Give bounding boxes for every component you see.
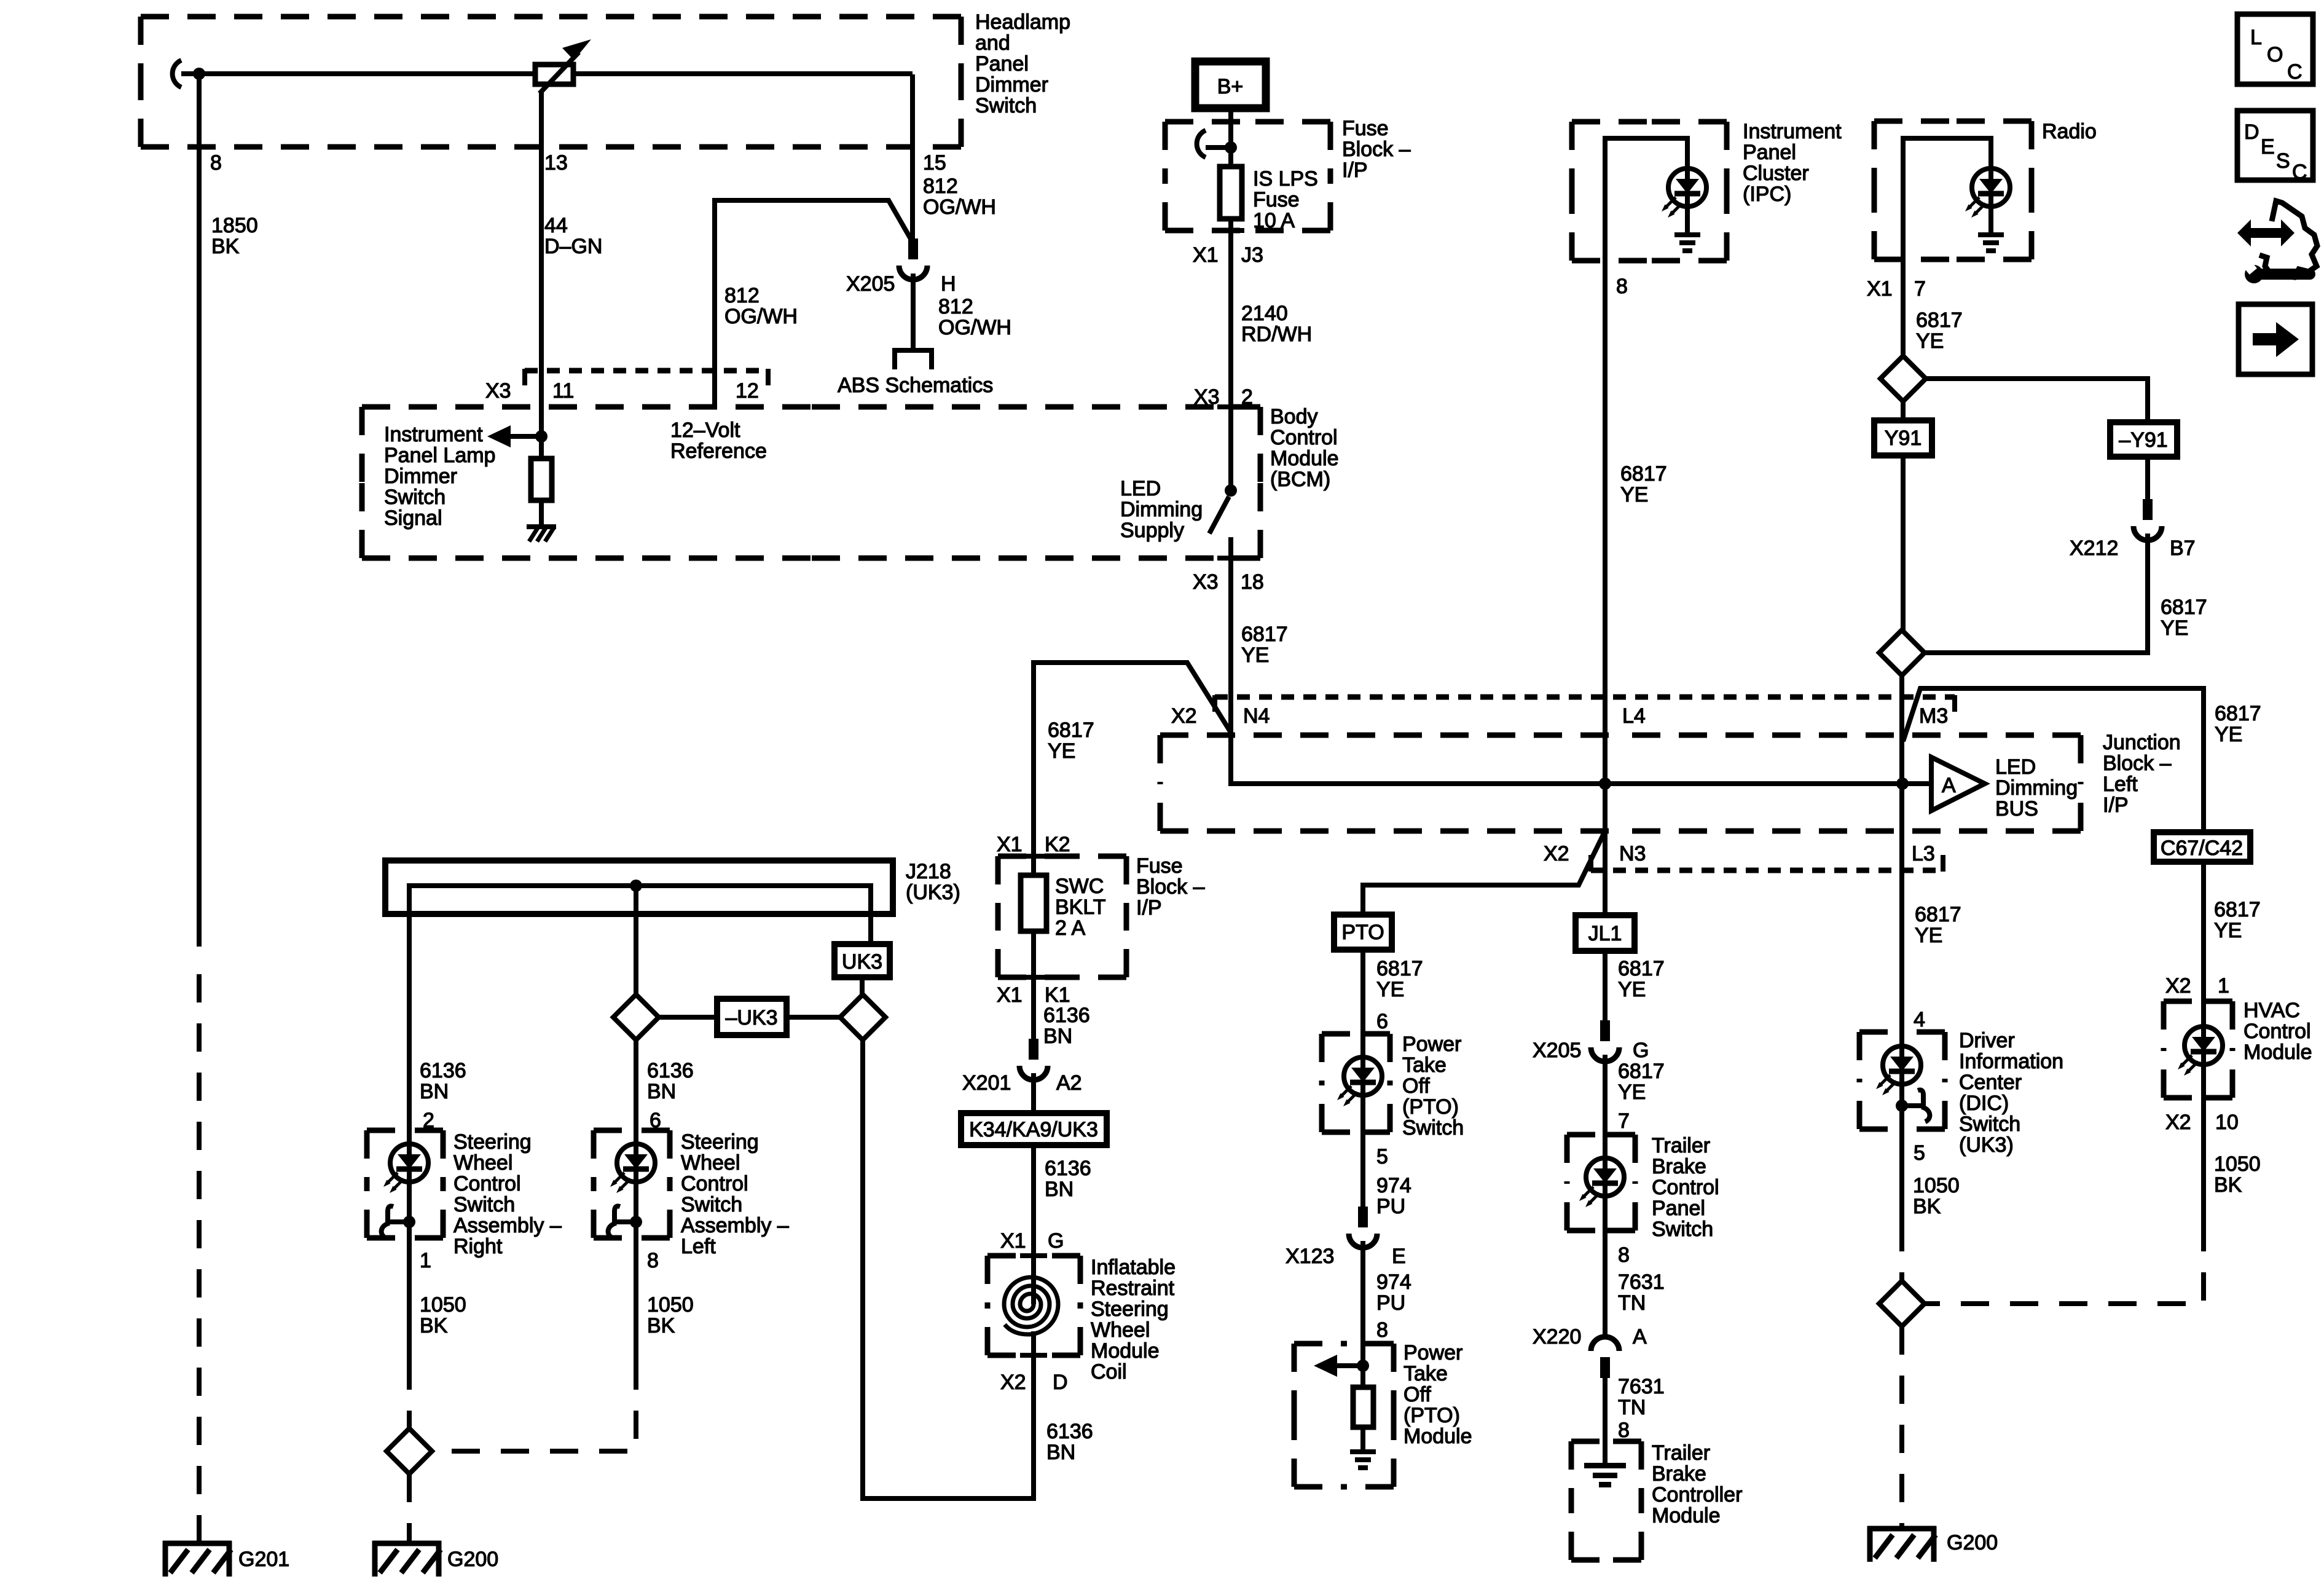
battery feed B+ — [1195, 61, 1266, 108]
node: junction dot at DIC column — [1896, 778, 1909, 790]
option code box -Y91 — [2110, 422, 2177, 457]
svg-text:7: 7 — [1914, 277, 1926, 301]
LED (IPC backlight) — [1662, 168, 1706, 218]
trailer brake controller module box — [1571, 1441, 1742, 1560]
svg-text:E: E — [2261, 135, 2275, 159]
wire: X212 branch to diamond 2 — [1925, 534, 2148, 653]
svg-text:4: 4 — [1914, 1008, 1925, 1031]
svg-text:X3: X3 — [1194, 385, 1220, 409]
HVAC control module box — [2164, 999, 2312, 1098]
wire: junction block to DIC switch — [1899, 831, 1904, 1032]
svg-text:Radio: Radio — [2042, 120, 2097, 143]
connector X212 pin B7 — [2134, 499, 2162, 540]
option code box PTO — [1334, 915, 1392, 950]
wire: X201 to K34 option box — [1031, 1073, 1036, 1113]
connector boundary dotted line N3/L3 — [1591, 855, 1943, 872]
diagnostic icon (vehicle outline, double arrow, wrench) — [2237, 201, 2317, 283]
wire: HVAC branch from M3 (diagonal) — [1903, 688, 2204, 832]
wire: 6817 YE from IPC down to JL1 — [1603, 261, 1608, 915]
driver information center DIC switch box — [1859, 1029, 2063, 1157]
svg-text:13: 13 — [544, 151, 568, 175]
ground (PTO module internal) — [1350, 1449, 1376, 1470]
svg-text:X2: X2 — [1544, 842, 1569, 865]
svg-text:X2: X2 — [2165, 974, 2191, 998]
wire: B+ to fuse — [1228, 108, 1233, 167]
switch hook (right assembly) — [382, 1182, 415, 1238]
wire: fuse output through X1 J3 — [1228, 219, 1233, 407]
splice diamond (G200 feed) — [387, 1428, 432, 1474]
svg-text:X123: X123 — [1286, 1245, 1334, 1268]
option code box JL1 — [1576, 915, 1635, 951]
connector boundary dotted line N4/L4/M3 — [1215, 695, 1955, 712]
LED (trailer brake switch backlight) — [1603, 1135, 1608, 1231]
svg-text:X212: X212 — [2070, 537, 2118, 560]
wire: diamond to -Y91 branch — [1926, 379, 2148, 422]
splice diamond 3 (G200 right) — [1879, 1281, 1925, 1326]
LED (radio backlight) — [1965, 168, 2010, 218]
svg-text:–Y91: –Y91 — [2119, 428, 2167, 452]
loc icon box — [2237, 14, 2313, 84]
pin tick X3/2 — [1217, 404, 1244, 409]
wire: LED to radio ground — [1988, 207, 1993, 232]
svg-text:K2: K2 — [1045, 833, 1070, 856]
svg-text:L4: L4 — [1622, 704, 1646, 728]
wire: pin 15 circuit 812 OG/WH — [910, 74, 915, 240]
wire: pin 8 circuit 1850 BK (solid part) — [197, 74, 202, 947]
svg-text:C: C — [2287, 60, 2302, 84]
next page arrow icon box — [2239, 304, 2312, 374]
svg-text:18: 18 — [1241, 570, 1264, 594]
wire: LED to IPC ground — [1685, 207, 1690, 232]
wire: coil return loop to UK3 diamond — [863, 1040, 1034, 1498]
splice diamond (right, UK3) — [840, 994, 885, 1040]
svg-text:JL1: JL1 — [1588, 922, 1622, 945]
splice diamond (radio branch) — [1880, 356, 1926, 401]
svg-text:D: D — [2244, 120, 2259, 144]
svg-text:G200: G200 — [447, 1548, 498, 1571]
instrument panel cluster IPC box — [1572, 120, 1842, 261]
wire: 812 OG/WH to ABS schematics — [911, 274, 916, 348]
LED (PTO switch backlight) — [1360, 1034, 1365, 1132]
pin tick X1/K2 — [1020, 854, 1047, 859]
wire: diamond to G200 dashed — [407, 1474, 412, 1544]
svg-text:–UK3: –UK3 — [725, 1006, 777, 1030]
node: junction dot in PTO module — [1357, 1360, 1369, 1372]
wire: DIC ground solid then dashed — [1899, 1129, 1904, 1223]
option code box K34/KA9/UK3 — [961, 1113, 1107, 1145]
switch: LED dimming supply (BCM internal) — [1209, 407, 1237, 558]
wire: J218 to left diamond — [634, 914, 638, 994]
switch hook (DIC) — [1896, 1090, 1929, 1122]
svg-text:X1: X1 — [1000, 1229, 1026, 1253]
svg-text:8: 8 — [1376, 1318, 1388, 1342]
fuse SWC BKLT 2 A — [1021, 856, 1106, 977]
wire: diamond 3 to G200 dashed — [1899, 1326, 1904, 1529]
ground (trailer brake controller internal) — [1584, 1463, 1626, 1487]
connector X201 pin A2 — [1019, 1039, 1048, 1080]
wire stub curl (headlamp switch feed) — [173, 60, 181, 87]
LED (left assembly backlight) — [634, 1130, 638, 1144]
svg-text:1: 1 — [2218, 974, 2229, 998]
option code box -UK3 — [717, 999, 787, 1035]
svg-text:C: C — [2292, 160, 2307, 184]
connector X205 pin H — [899, 238, 927, 280]
option code box Y91 — [1874, 401, 1932, 455]
wire: pin 13 circuit 44 D-GN — [539, 91, 544, 436]
ground (IPC internal) — [1674, 232, 1700, 253]
ground G200 (left) — [372, 1541, 441, 1577]
connector X205 pin G — [1591, 1020, 1619, 1061]
wire: switch to X220 — [1603, 1231, 1608, 1337]
svg-text:UK3: UK3 — [842, 950, 882, 974]
svg-text:K34/KA9/UK3: K34/KA9/UK3 — [969, 1118, 1098, 1141]
svg-text:G200: G200 — [1947, 1531, 1998, 1554]
fuse IS LPS 10 A — [1220, 167, 1318, 232]
LED (HVAC backlight) — [2201, 1001, 2206, 1098]
node: junction dot on 44 D-GN at BCM — [535, 430, 548, 443]
wire: radio internal — [1903, 138, 1991, 259]
splice diamond (left) — [613, 994, 659, 1040]
connector X220 pin A (inverted) — [1591, 1337, 1619, 1378]
ground G201 — [163, 1541, 232, 1577]
wire: IPC internal — [1605, 138, 1687, 261]
power take off PTO switch box — [1322, 1033, 1464, 1140]
wire: -Y91 to X212 — [2145, 457, 2150, 499]
svg-text:11: 11 — [552, 379, 574, 403]
svg-text:G: G — [1633, 1039, 1649, 1062]
svg-text:E: E — [1392, 1245, 1406, 1268]
pin tick X1/G — [1020, 1253, 1047, 1258]
svg-text:X1: X1 — [997, 983, 1023, 1007]
svg-text:X1: X1 — [997, 833, 1023, 856]
J218 splice pack bus — [385, 860, 960, 944]
wire: 6136 BN fuse output — [1031, 977, 1036, 1039]
svg-text:D: D — [1053, 1371, 1068, 1394]
wire: 6817 YE main vertical and bus to LED dimming bus — [1231, 558, 1931, 784]
wire: arrow to instrument panel lamp dimmer signal — [487, 425, 541, 447]
splice diamond 2 — [1879, 630, 1925, 675]
svg-text:A: A — [1942, 774, 1956, 797]
connector X123 pin E — [1349, 1207, 1377, 1248]
ground (BCM internal) — [527, 527, 556, 541]
svg-text:B7: B7 — [2170, 537, 2196, 560]
pin tick X1/K1 — [1020, 975, 1047, 980]
wire: radio to splice diamond — [1901, 259, 1906, 356]
svg-text:X3: X3 — [1193, 570, 1219, 594]
wire: left steering column 6136 BN — [407, 914, 412, 1130]
svg-text:M3: M3 — [1919, 704, 1948, 728]
svg-text:G201: G201 — [238, 1548, 289, 1571]
wire: UK3 to diamond — [860, 977, 865, 994]
svg-text:5: 5 — [1914, 1141, 1925, 1165]
node: junction dot at fuse — [1225, 141, 1237, 154]
wire: X205 to trailer brake switch — [1603, 1055, 1608, 1135]
radio box — [1874, 120, 2097, 259]
svg-text:L: L — [2250, 26, 2262, 49]
svg-text:B+: B+ — [1217, 75, 1244, 98]
wire: -UK3 to left diamond — [659, 1015, 717, 1020]
rheostat (dimmer) — [535, 39, 591, 93]
wire: JL1 to X205 — [1603, 951, 1608, 1020]
node: junction dot in headlamp switch — [193, 68, 205, 80]
connector X3 in-line dotted boundary — [525, 369, 768, 385]
svg-text:X201: X201 — [962, 1071, 1011, 1095]
svg-text:PTO: PTO — [1341, 921, 1384, 944]
svg-text:1: 1 — [420, 1249, 431, 1272]
node: junction dot at JL1 column — [1599, 778, 1611, 790]
wire: headlamp switch internal horizontal — [181, 71, 913, 76]
svg-text:8: 8 — [1616, 275, 1628, 298]
svg-text:J3: J3 — [1241, 243, 1263, 267]
svg-text:8: 8 — [1618, 1419, 1630, 1442]
svg-text:8: 8 — [210, 151, 222, 175]
svg-text:L3: L3 — [1912, 842, 1935, 865]
svg-text:2: 2 — [1241, 385, 1253, 409]
svg-text:X1: X1 — [1193, 243, 1219, 267]
svg-text:10: 10 — [2215, 1111, 2239, 1134]
svg-text:5: 5 — [1376, 1145, 1388, 1168]
wire: C67/C42 to HVAC — [2201, 862, 2206, 1001]
coil spiral — [1004, 1256, 1058, 1372]
svg-text:X1: X1 — [1867, 277, 1893, 301]
LED (right assembly backlight) — [407, 1130, 412, 1144]
ground (radio internal) — [1978, 232, 2004, 253]
svg-text:15: 15 — [923, 151, 946, 175]
pin tick X3/18 — [1217, 556, 1244, 561]
wire: arrow inside PTO module — [1314, 1355, 1363, 1377]
svg-text:S: S — [2276, 149, 2290, 173]
svg-text:7: 7 — [1618, 1109, 1630, 1133]
wire: Y91 to diamond 2 — [1901, 455, 1906, 630]
svg-text:A: A — [1633, 1325, 1647, 1349]
connector C67/C42 box — [2154, 832, 2250, 862]
headlamp and panel dimmer switch box — [141, 10, 1070, 147]
svg-text:N4: N4 — [1243, 704, 1270, 728]
resistor (dimmer signal load) — [531, 436, 552, 524]
body control module BCM box — [362, 405, 1339, 558]
wire: 6817 YE branch to SWC fuse (diagonal) — [1034, 663, 1230, 856]
svg-text:A2: A2 — [1056, 1071, 1082, 1095]
svg-text:ABS Schematics: ABS Schematics — [838, 374, 993, 397]
pin tick X1/J3 — [1217, 228, 1244, 233]
wire: 1050 BK solid then dashed to diamond — [407, 1238, 412, 1361]
LED (DIC backlight) — [1899, 1032, 1904, 1129]
desc icon box — [2237, 111, 2313, 184]
svg-text:G: G — [1048, 1229, 1064, 1253]
steering wheel control switch assembly left box — [594, 1130, 789, 1258]
svg-text:12: 12 — [736, 379, 759, 403]
junction block left I/P box — [1160, 731, 2181, 831]
resistor (PTO module) — [1353, 1366, 1373, 1449]
wire: 1850 BK dashed continuation — [197, 974, 202, 1544]
svg-text:X220: X220 — [1533, 1325, 1581, 1349]
wire: X123 to PTO module — [1360, 1241, 1365, 1366]
wire: diamond 2 down through M3 to junction block — [1899, 675, 1904, 831]
wire: PTO switch to X123 — [1360, 1132, 1365, 1207]
svg-text:H: H — [941, 272, 956, 296]
option code box UK3 — [834, 944, 890, 977]
trailer brake control panel switch box — [1567, 1134, 1719, 1241]
svg-text:X205: X205 — [846, 272, 895, 296]
svg-text:X205: X205 — [1533, 1039, 1581, 1062]
svg-text:N3: N3 — [1619, 842, 1646, 865]
wire: left assembly column 6136 BN — [634, 1040, 638, 1130]
wire: diamond link left — [787, 1015, 840, 1020]
wire: HVAC ground solid then dashed corner — [2201, 1098, 2206, 1223]
svg-text:X2: X2 — [1000, 1371, 1026, 1394]
svg-text:6: 6 — [1376, 1010, 1388, 1033]
svg-text:Y91: Y91 — [1885, 427, 1922, 450]
wire: PTO branch from N3 (diagonal) — [1363, 831, 1605, 915]
svg-text:X2: X2 — [2165, 1111, 2191, 1134]
svg-text:X2: X2 — [1171, 704, 1197, 728]
svg-text:O: O — [2267, 43, 2283, 66]
inflatable restraint steering wheel module coil box — [987, 1256, 1176, 1384]
svg-text:8: 8 — [1618, 1243, 1630, 1267]
ground G200 (right) — [1867, 1526, 1936, 1562]
svg-text:X3: X3 — [485, 379, 511, 403]
svg-text:TrailerBrakeControlPanelSwitch: TrailerBrakeControlPanelSwitch — [1652, 1134, 1719, 1241]
wire: 12-volt reference 812 OG/WH — [715, 200, 912, 407]
LED dimming bus triangle A — [1931, 755, 2078, 821]
wire: 6136 BN to coil — [1031, 1145, 1036, 1256]
power take off PTO module box — [1294, 1341, 1472, 1487]
pin tick X2/D — [1020, 1353, 1047, 1358]
off-page reference symbol (ABS) — [895, 350, 932, 369]
fuse block I/P box — [1165, 117, 1411, 230]
wire stub curl (fuse feed) — [1197, 130, 1206, 157]
wire: X220 to trailer brake controller — [1603, 1378, 1608, 1463]
svg-text:C67/C42: C67/C42 — [2161, 837, 2243, 860]
switch hook (left assembly) — [608, 1182, 642, 1238]
wire: PTO box to switch — [1360, 950, 1365, 1034]
steering wheel control switch assembly right box — [367, 1130, 562, 1258]
fuse block I/P box (SWC) — [998, 854, 1205, 977]
wire: 1050 BK solid then dashed corner to diamond — [634, 1238, 638, 1361]
svg-text:8: 8 — [647, 1249, 659, 1272]
